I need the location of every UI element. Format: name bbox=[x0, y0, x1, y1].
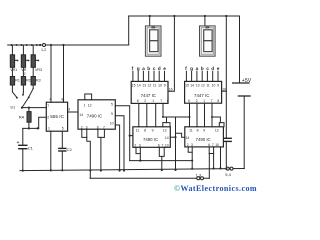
svg-text:R1: R1 bbox=[15, 78, 20, 82]
svg-text:+5V: +5V bbox=[242, 78, 252, 84]
wire S1 pole to 555 pin7 bbox=[22, 107, 46, 109]
wire U4 clock stub bbox=[170, 133, 185, 138]
svg-text:7: 7 bbox=[162, 144, 164, 148]
wire 555 pin4 riser bbox=[50, 45, 52, 102]
potentiometer VR1 bbox=[10, 45, 18, 72]
svg-text:1,2: 1,2 bbox=[41, 48, 46, 52]
svg-text:9: 9 bbox=[164, 83, 166, 87]
svg-text:16: 16 bbox=[169, 87, 173, 91]
svg-text:RA: RA bbox=[19, 115, 25, 120]
svg-text:2: 2 bbox=[47, 116, 49, 120]
svg-text:R3: R3 bbox=[36, 78, 41, 82]
svg-text:14: 14 bbox=[137, 83, 141, 87]
svg-text:12: 12 bbox=[148, 83, 152, 87]
wire 7447-1 vcc bbox=[168, 16, 174, 91]
svg-text:8: 8 bbox=[137, 99, 139, 103]
wire U2 out A bbox=[115, 106, 133, 161]
svg-text:1: 1 bbox=[203, 99, 205, 103]
node RA junction bbox=[28, 107, 30, 109]
svg-text:5: 5 bbox=[111, 102, 113, 106]
wire 555 output to counter bbox=[68, 111, 78, 113]
svg-text:7447 IC: 7447 IC bbox=[141, 93, 156, 98]
wire 555 pin1 to ground bbox=[50, 131, 52, 171]
capacitor C3 bypass bbox=[224, 138, 231, 169]
node display1 tap bbox=[149, 15, 151, 17]
wire 7447-2 BCD lines bbox=[190, 103, 213, 127]
labels segment letters digit2 bbox=[185, 66, 220, 72]
resistor RA bbox=[19, 108, 31, 129]
svg-text:14: 14 bbox=[79, 113, 83, 117]
svg-text:10: 10 bbox=[165, 144, 169, 148]
svg-text:11: 11 bbox=[136, 129, 140, 133]
svg-text:8: 8 bbox=[217, 99, 219, 103]
op-amp U5 7447 decoder 2 bbox=[185, 81, 227, 103]
svg-text:10: 10 bbox=[215, 143, 219, 147]
svg-text:2: 2 bbox=[196, 99, 198, 103]
wire carry to U6 bump bbox=[211, 116, 220, 123]
svg-text:+: + bbox=[17, 140, 20, 146]
svg-text:12: 12 bbox=[88, 103, 92, 107]
svg-text:S1: S1 bbox=[10, 105, 16, 110]
svg-text:10: 10 bbox=[110, 121, 114, 125]
svg-text:12: 12 bbox=[215, 129, 219, 133]
wire reset bus bbox=[130, 160, 194, 162]
wire carry bus bbox=[163, 116, 191, 171]
svg-text:5,4: 5,4 bbox=[225, 172, 231, 177]
svg-text:10: 10 bbox=[212, 83, 216, 87]
svg-text:14: 14 bbox=[190, 83, 194, 87]
op-amp U1 555 timer bbox=[46, 98, 70, 132]
svg-text:C1: C1 bbox=[28, 145, 34, 150]
wire U2 reset pins to reset rail bbox=[82, 129, 92, 178]
wire U2 out B bbox=[115, 116, 125, 172]
wire reset rail bbox=[90, 177, 209, 179]
svg-text:14: 14 bbox=[186, 136, 190, 140]
svg-text:10: 10 bbox=[158, 83, 162, 87]
potentiometer VR3 bbox=[31, 45, 42, 72]
resistor R1 bbox=[10, 67, 20, 92]
node display2 tap bbox=[204, 15, 206, 17]
wire U6 gnd pins bbox=[209, 147, 215, 178]
svg-text:13: 13 bbox=[142, 83, 146, 87]
op-amp U6 7490 counter 2 bbox=[185, 123, 224, 148]
svg-text:7490 IC: 7490 IC bbox=[143, 137, 158, 142]
wire U6 pin10 bbox=[219, 147, 221, 170]
wire U6 reset pins bbox=[188, 147, 193, 170]
svg-text:9: 9 bbox=[217, 83, 219, 87]
svg-text:9: 9 bbox=[203, 129, 205, 133]
capacitor C2 bbox=[59, 131, 73, 171]
svg-text:1,3: 1,3 bbox=[196, 172, 202, 177]
node rail beads bbox=[10, 44, 38, 46]
svg-text:7447 IC: 7447 IC bbox=[194, 93, 209, 98]
battery B1 +5V bbox=[233, 16, 252, 169]
svg-text:12: 12 bbox=[201, 83, 205, 87]
svg-text:1: 1 bbox=[84, 103, 86, 107]
switch S1 rotary selector bbox=[10, 89, 33, 110]
resistor R2 bbox=[21, 67, 31, 92]
wire +V top rail bbox=[129, 15, 240, 17]
svg-text:6: 6 bbox=[167, 99, 169, 103]
svg-text:VR3: VR3 bbox=[35, 68, 42, 72]
node 555 pin8 tap bbox=[62, 44, 64, 46]
node 7447-1 vcc tap bbox=[173, 15, 175, 17]
display DS1 7-segment bbox=[145, 16, 161, 56]
terminal 5,4 connector circles bbox=[225, 167, 233, 177]
svg-text:2: 2 bbox=[144, 99, 146, 103]
svg-text:5: 5 bbox=[62, 126, 64, 130]
svg-text:3: 3 bbox=[68, 108, 70, 112]
wire +V left rail bbox=[8, 44, 129, 46]
labels segment letters digit1 bbox=[132, 66, 167, 72]
svg-text:©WatElectronics.com: ©WatElectronics.com bbox=[174, 184, 257, 193]
wire segment lines digit2 bbox=[186, 71, 218, 81]
svg-text:1: 1 bbox=[152, 99, 154, 103]
svg-text:9: 9 bbox=[111, 112, 113, 116]
terminal 1,3 connector circles bbox=[196, 172, 204, 179]
svg-text:1: 1 bbox=[48, 126, 50, 130]
op-amp U2 7490 divider bbox=[78, 94, 115, 129]
svg-text:11: 11 bbox=[189, 129, 193, 133]
node 7447-2 vcc tap bbox=[225, 15, 227, 17]
wire rail riser bbox=[128, 16, 130, 45]
wire U4 gnd pins bbox=[159, 147, 164, 171]
wire 7447-1 BCD lines bbox=[139, 103, 164, 126]
svg-text:7490 IC: 7490 IC bbox=[196, 137, 211, 142]
svg-text:555 IC: 555 IC bbox=[50, 114, 64, 119]
svg-text:8: 8 bbox=[197, 129, 199, 133]
wire 555 pin8 riser bbox=[63, 45, 65, 102]
capacitor C1 bbox=[17, 128, 34, 171]
svg-text:11: 11 bbox=[206, 83, 210, 87]
svg-text:7: 7 bbox=[47, 104, 49, 108]
svg-text:R2: R2 bbox=[26, 78, 31, 82]
wire 7447-2 vcc and bypass line bbox=[222, 16, 227, 138]
svg-text:12: 12 bbox=[163, 129, 167, 133]
node 555 pin4 tap bbox=[50, 44, 52, 46]
potentiometer VR2 bbox=[21, 45, 29, 76]
wire U4 reset pins bbox=[136, 147, 141, 161]
svg-text:15: 15 bbox=[185, 83, 189, 87]
display DS2 7-segment bbox=[200, 16, 216, 56]
wire U2 out C bbox=[115, 125, 120, 172]
op-amp U3 7447 decoder 1 bbox=[131, 81, 172, 103]
svg-text:C2: C2 bbox=[67, 147, 73, 152]
svg-text:11: 11 bbox=[153, 83, 157, 87]
wire U2 gnd pins bbox=[98, 129, 105, 171]
svg-text:VR1: VR1 bbox=[10, 68, 17, 72]
svg-text:7490 IC: 7490 IC bbox=[87, 113, 102, 118]
svg-text:14: 14 bbox=[165, 136, 169, 140]
svg-text:15: 15 bbox=[132, 83, 136, 87]
wire segment lines digit1 bbox=[133, 71, 165, 81]
svg-text:7: 7 bbox=[160, 99, 162, 103]
terminal 1,2 connector circles bbox=[39, 44, 46, 53]
svg-text:8: 8 bbox=[144, 129, 146, 133]
op-amp U4 7490 counter 1 bbox=[133, 123, 170, 148]
svg-text:9: 9 bbox=[152, 129, 154, 133]
svg-text:7: 7 bbox=[211, 99, 213, 103]
resistor R3 bbox=[31, 67, 41, 88]
svg-text:6: 6 bbox=[188, 99, 190, 103]
wire trigger node bbox=[23, 117, 47, 129]
svg-text:13: 13 bbox=[196, 83, 200, 87]
wire ground rail bbox=[20, 169, 244, 171]
